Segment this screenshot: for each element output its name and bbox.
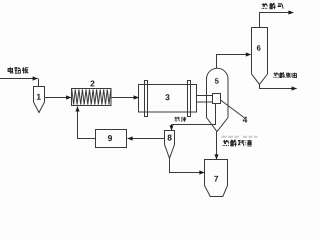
label 6 for vessel 6 <box>257 45 261 50</box>
arrowhead tar outlet <box>292 86 297 90</box>
wire feed line 电路板 into hopper 1 <box>0 79 39 87</box>
duct kiln 3 to separator 4 <box>197 96 213 103</box>
leader line to label 4 <box>221 100 245 118</box>
heater 2 coil <box>72 89 111 104</box>
arrowhead into feeder 9 <box>127 136 132 140</box>
label 热解焦油 <box>274 72 297 78</box>
label 7 for bin 7 <box>214 176 218 182</box>
label 载体 <box>174 117 186 122</box>
label 8 for hopper 8 <box>168 135 172 141</box>
label 1 for hopper 1 <box>37 94 41 100</box>
arrowhead into heater 2 bottom <box>75 106 79 111</box>
arrowhead into hopper 8 top <box>169 125 173 130</box>
cyclone 5 shell <box>207 68 229 131</box>
label 5 for cyclone 5 <box>215 78 219 83</box>
kiln 3 left riding ring <box>145 81 148 117</box>
arrowhead gas outlet <box>288 10 293 14</box>
arrowhead into vessel 6 <box>246 52 251 56</box>
heater 2 <box>72 89 112 106</box>
hopper 8 <box>165 131 175 159</box>
wire hopper 1 to heater 2 <box>45 97 71 99</box>
rotary kiln 3 body <box>139 85 197 113</box>
vessel 6 shell <box>252 28 268 85</box>
label 3 for kiln 3 <box>165 94 169 100</box>
wire hopper 8 to feeder 9 <box>128 138 165 140</box>
separator box 4 <box>213 94 221 104</box>
arrowhead into hopper 1 <box>33 76 38 80</box>
label 9 for feeder 9 <box>108 135 112 141</box>
wire carrier return 4 to hopper 8 <box>172 104 216 131</box>
label 电路板 <box>8 67 28 73</box>
kiln 3 right riding ring <box>188 81 191 117</box>
wire heater 2 to kiln 3 <box>111 97 138 99</box>
wire cyclone 5 bottom to bin 7 <box>216 132 218 160</box>
label 4 for separator 4 <box>243 117 247 123</box>
label 热解气 <box>262 3 284 9</box>
feeder 9 box <box>96 130 127 148</box>
wire feeder 9 to heater 2 <box>78 106 96 138</box>
wire vessel 6 top gas outlet <box>260 13 294 28</box>
wire hopper 8 to bin 7 <box>170 158 205 172</box>
label 2 for heater 2 <box>90 81 94 87</box>
hopper 1 <box>34 87 45 113</box>
label 热解残渣 <box>223 140 252 146</box>
wire cyclone 5 top to vessel 6 <box>217 55 251 69</box>
watermark <box>222 136 258 138</box>
arrowhead into bin 7 top <box>214 154 218 159</box>
arrowhead into heater 2 <box>66 95 71 99</box>
arrowhead into kiln 3 <box>134 95 139 99</box>
arrowhead into bin 7 left <box>199 170 204 174</box>
wire vessel 6 bottom tar outlet <box>260 84 297 88</box>
bin 7 <box>205 160 228 197</box>
